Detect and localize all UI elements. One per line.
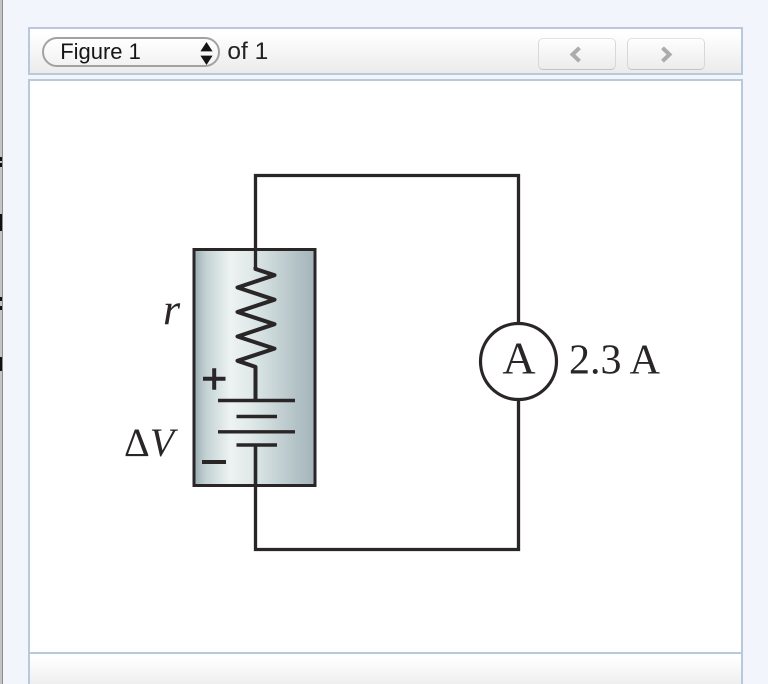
svg-text:2.3 A: 2.3 A	[569, 338, 661, 384]
svg-text:A: A	[502, 333, 535, 384]
svg-text:ΔV: ΔV	[124, 420, 179, 465]
svg-text:r: r	[163, 285, 181, 334]
